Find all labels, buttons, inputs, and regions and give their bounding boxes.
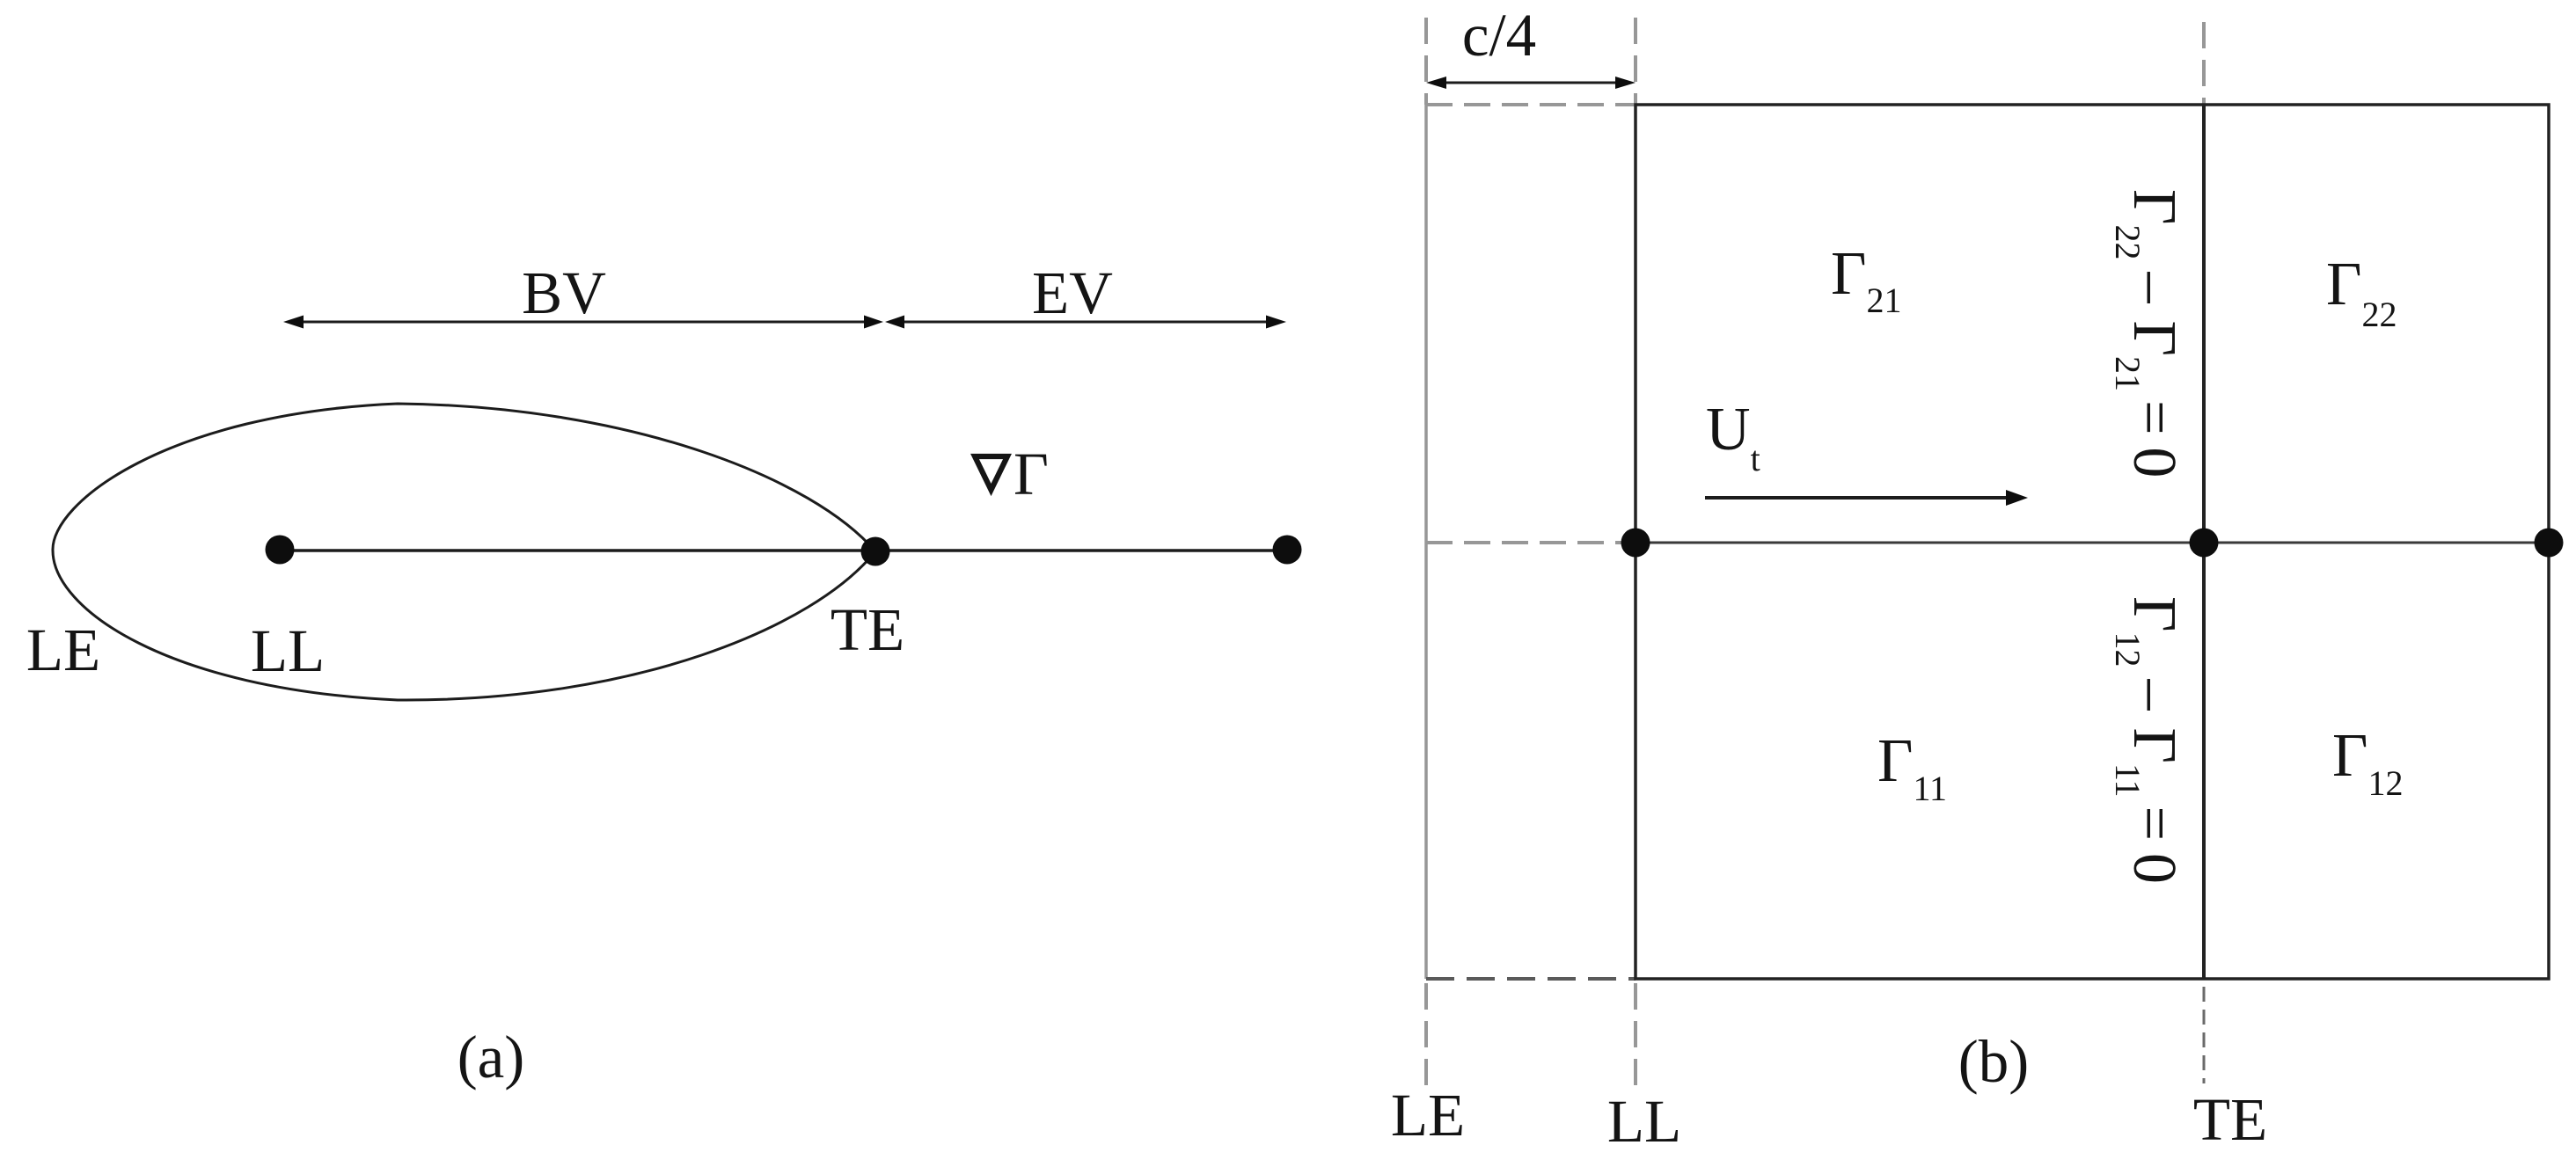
svg-text:LL: LL — [1607, 1088, 1681, 1155]
svg-text:TE: TE — [2193, 1086, 2267, 1153]
svg-text:c/4: c/4 — [1462, 2, 1536, 69]
svg-text:LL: LL — [251, 617, 325, 684]
svg-text:TE: TE — [831, 596, 904, 663]
svg-text:LE: LE — [1391, 1082, 1465, 1149]
svg-text:EV: EV — [1032, 259, 1113, 326]
svg-text:BV: BV — [522, 259, 606, 326]
svg-text:Γ: Γ — [1014, 441, 1049, 507]
svg-text:LE: LE — [26, 616, 100, 683]
svg-text:(a): (a) — [457, 1024, 525, 1090]
svg-text:(b): (b) — [1958, 1028, 2029, 1095]
